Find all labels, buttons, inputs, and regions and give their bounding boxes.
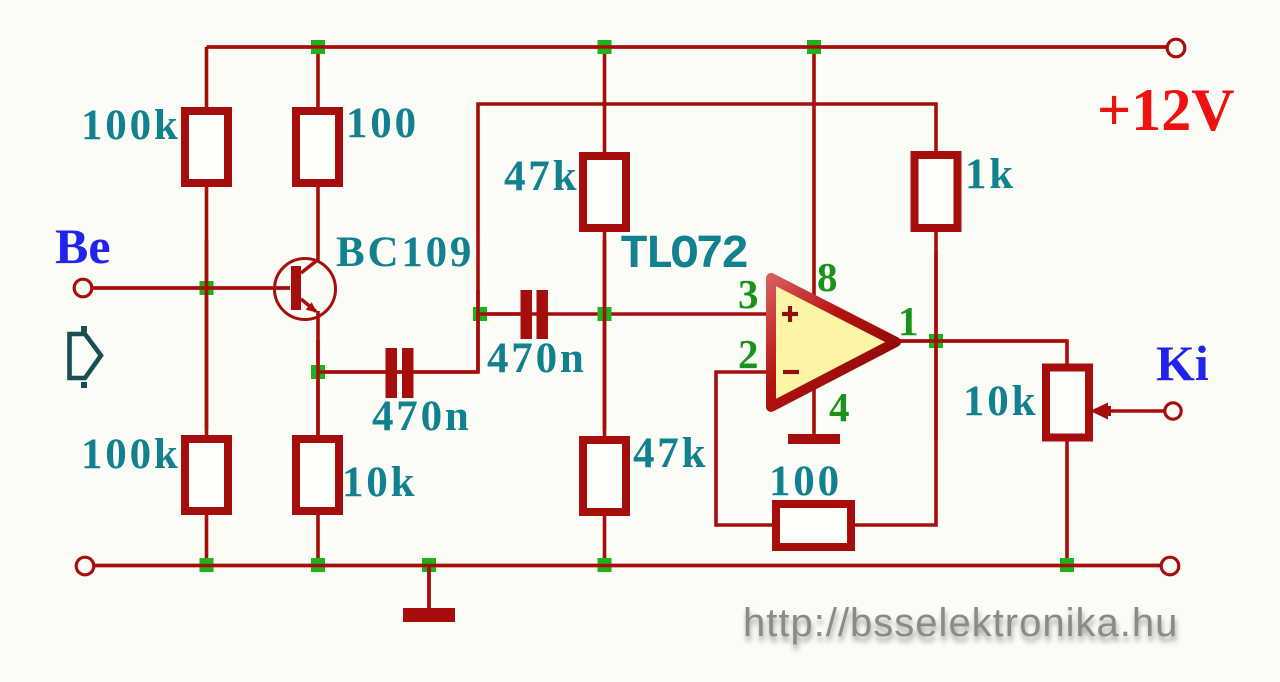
svg-text:Ki: Ki <box>1156 335 1209 391</box>
wire output node vertical (overlay) <box>934 250 938 440</box>
resistor R2 100 (collector) <box>296 111 339 183</box>
wire node to pin3 through C2 <box>478 312 766 316</box>
terminal gnd right <box>1161 557 1179 575</box>
svg-text:47k: 47k <box>633 430 708 477</box>
node collector/rail <box>311 40 325 54</box>
input symbol (mic marker) <box>70 326 102 388</box>
terminal gnd left <box>76 557 94 575</box>
wire emitter to C1 (overlay) <box>318 370 478 374</box>
resistor R4 1k (feedback) <box>915 155 958 228</box>
wire ground stub (overlay) <box>427 565 431 608</box>
svg-text:Be: Be <box>55 218 111 274</box>
resistor R7 47k (lower bias) <box>583 440 626 512</box>
node bottom rail/10k <box>311 558 325 572</box>
resistor R1 100k (upper left) <box>185 111 228 183</box>
wire 47k divider (overlay) <box>603 240 607 430</box>
svg-text:1k: 1k <box>965 151 1016 198</box>
watermark <box>743 601 1179 650</box>
svg-text:1: 1 <box>898 298 919 344</box>
svg-text:http://bsselektronika.hu: http://bsselektronika.hu <box>743 601 1178 645</box>
wire pin2 to 100 resistor <box>716 372 776 525</box>
wire pot wiper to Ki <box>1102 409 1164 413</box>
node Be/base/divider <box>200 281 214 295</box>
svg-text:470n: 470n <box>487 335 587 382</box>
node bottom rail/ground <box>422 558 436 572</box>
terminal Be <box>74 279 92 297</box>
wire ground stub <box>427 565 431 608</box>
op-amp U1 TL072 <box>771 278 896 407</box>
terminal Ki <box>1165 403 1181 419</box>
wire top rail (overlay) <box>207 45 1168 49</box>
wire bottom rail <box>94 564 1161 568</box>
node bottom rail/100k <box>200 558 214 572</box>
svg-text:100: 100 <box>769 458 842 505</box>
node bottom rail/pot <box>1060 558 1074 572</box>
svg-text:470n: 470n <box>372 393 472 440</box>
resistor R5 100k (lower left) <box>185 439 228 511</box>
node output <box>929 334 943 348</box>
resistor R6 10k (emitter) <box>296 439 339 511</box>
wire Be input to base <box>92 286 290 290</box>
wire output node down to 100 feedback <box>851 341 936 525</box>
node bottom rail/47k <box>598 558 612 572</box>
wire pot bottom <box>1065 437 1069 565</box>
wire node to C2 (overlay) <box>478 312 520 316</box>
svg-text:100k: 100k <box>81 102 181 149</box>
svg-text:3: 3 <box>738 271 759 317</box>
svg-text:8: 8 <box>817 254 838 300</box>
resistor R3 47k (upper bias) <box>583 156 626 228</box>
wire left vertical (overlay) <box>205 240 209 430</box>
svg-text:BC109: BC109 <box>336 229 474 276</box>
resistor R8 100 (feedback, horizontal) <box>776 504 851 547</box>
svg-text:TLO72: TLO72 <box>620 229 747 282</box>
svg-text:100: 100 <box>346 100 419 147</box>
capacitor C2 470n <box>521 290 549 339</box>
wire pin4 to ground <box>812 386 816 436</box>
svg-text:+12V: +12V <box>1097 77 1235 143</box>
wire output (overlay) <box>894 339 1067 343</box>
svg-text:10k: 10k <box>963 378 1038 425</box>
wire left vertical (100k divider) <box>205 47 209 565</box>
wire collector vertical <box>316 47 320 262</box>
potentiometer P1 10k <box>1046 368 1111 438</box>
node emitter/C1 <box>311 365 325 379</box>
transistor Q1 BC109 <box>275 259 336 320</box>
wire 47k divider vertical <box>603 47 607 565</box>
svg-text:2: 2 <box>738 331 759 377</box>
wire feedback vertical (overlay) <box>476 290 480 372</box>
terminal +12V <box>1167 39 1185 57</box>
wire pin8 to rail <box>812 47 816 296</box>
svg-text:100k: 100k <box>81 431 181 478</box>
wire emitter vertical <box>316 311 320 565</box>
wire top rail +12V <box>207 45 1168 49</box>
ground (bottom rail) <box>403 608 455 622</box>
node 47k/rail <box>598 40 612 54</box>
node C1/C2/feedback <box>473 307 487 321</box>
node pin8/rail <box>807 40 821 54</box>
wire bottom rail (overlay) <box>94 564 1161 568</box>
node junctions (green) <box>200 40 1075 572</box>
svg-text:47k: 47k <box>504 153 579 200</box>
wire Be input (overlay) <box>92 286 290 290</box>
svg-text:4: 4 <box>829 384 850 430</box>
wire emitter to cap C1 and up to feedback <box>318 104 936 372</box>
wire output pin1 <box>894 341 1067 368</box>
wire 1k bottom to output node <box>934 228 938 341</box>
svg-text:10k: 10k <box>342 459 417 506</box>
ground (op-amp pin 4) <box>788 434 840 444</box>
node 47k divider/pin3 <box>598 307 612 321</box>
wire emitter vertical (overlay) <box>316 340 320 440</box>
capacitor C1 470n <box>386 348 414 398</box>
